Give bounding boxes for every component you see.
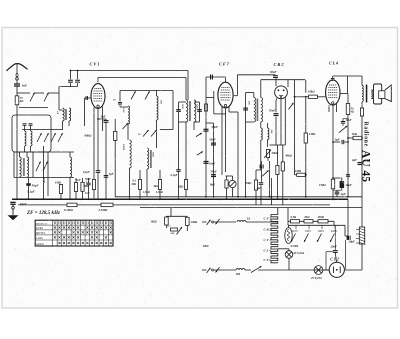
svg-text:4Ω: 4Ω: [350, 111, 354, 114]
svg-text:50nF: 50nF: [346, 119, 352, 122]
svg-text:10μF: 10μF: [20, 202, 28, 206]
svg-text:1MΩ: 1MΩ: [178, 186, 184, 189]
svg-text:1MΩ: 1MΩ: [295, 169, 302, 173]
svg-text:LANG: LANG: [36, 237, 43, 240]
svg-text:200: 200: [270, 129, 273, 134]
svg-text:1,5kΩ: 1,5kΩ: [156, 191, 163, 194]
svg-text:BEREICH: BEREICH: [36, 222, 47, 225]
svg-text:C Y 1: C Y 1: [264, 258, 272, 262]
svg-text:MITTEL: MITTEL: [36, 232, 46, 235]
svg-text:160V: 160V: [318, 229, 325, 233]
svg-text:1A: 1A: [247, 216, 251, 220]
svg-text:300: 300: [160, 99, 163, 104]
svg-text:0.1μF: 0.1μF: [28, 190, 35, 194]
svg-text:6V 0,23A: 6V 0,23A: [294, 251, 305, 255]
svg-text:2μF: 2μF: [351, 158, 357, 162]
svg-text:5000: 5000: [152, 152, 155, 158]
svg-text:5μF: 5μF: [109, 173, 114, 176]
svg-text:150Ω: 150Ω: [318, 215, 325, 219]
svg-text:C Y 2: C Y 2: [330, 257, 339, 261]
svg-text:1000: 1000: [195, 104, 198, 110]
svg-text:4V 0,25A: 4V 0,25A: [310, 276, 322, 280]
svg-text:130V: 130V: [305, 229, 312, 233]
svg-text:60W: 60W: [203, 244, 209, 248]
svg-text:1,5kΩ: 1,5kΩ: [143, 191, 150, 194]
svg-text:MΩ: MΩ: [131, 183, 136, 186]
svg-text:600: 600: [236, 273, 241, 276]
svg-text:50μF: 50μF: [32, 184, 39, 188]
svg-text:AU 45: AU 45: [360, 150, 372, 182]
svg-text:S/1000: S/1000: [291, 245, 299, 248]
svg-text:0.1MΩ: 0.1MΩ: [64, 208, 74, 212]
svg-text:C L 4: C L 4: [329, 60, 338, 65]
svg-text:0,1μF: 0,1μF: [171, 173, 178, 177]
svg-text:1MΩ: 1MΩ: [55, 181, 62, 185]
svg-text:20μF: 20μF: [348, 239, 356, 243]
svg-text:50nF: 50nF: [212, 125, 219, 129]
svg-text:4μF: 4μF: [340, 192, 346, 196]
svg-text:Radione: Radione: [363, 122, 369, 148]
svg-text:80kΩ: 80kΩ: [85, 133, 93, 137]
svg-text:220V: 220V: [331, 229, 338, 233]
svg-text:KURZ: KURZ: [36, 227, 43, 230]
svg-text:40μF: 40μF: [344, 183, 352, 187]
svg-text:MΩ: MΩ: [83, 185, 88, 188]
svg-text:53nF: 53nF: [209, 138, 216, 142]
svg-text:10000: 10000: [122, 144, 125, 151]
svg-text:55nF: 55nF: [210, 169, 217, 173]
svg-text:20kΩ: 20kΩ: [190, 220, 198, 224]
svg-text:10nF: 10nF: [209, 161, 216, 165]
svg-text:C F 7: C F 7: [219, 62, 230, 67]
svg-text:20nF: 20nF: [330, 245, 338, 249]
svg-text:C L 4: C L 4: [264, 249, 272, 253]
svg-text:110V: 110V: [292, 229, 299, 233]
svg-text:ZF = 128,5 kHz: ZF = 128,5 kHz: [26, 210, 60, 216]
svg-text:1kΩ: 1kΩ: [210, 183, 216, 187]
svg-text:0,5Ω: 0,5Ω: [291, 215, 298, 219]
svg-text:1nF: 1nF: [85, 192, 90, 195]
svg-text:40kΩ: 40kΩ: [284, 154, 292, 158]
svg-text:150Ω: 150Ω: [319, 183, 326, 187]
svg-text:0,10: 0,10: [122, 108, 125, 113]
svg-text:2.5MΩ: 2.5MΩ: [98, 208, 109, 212]
svg-text:3nF: 3nF: [100, 114, 106, 118]
svg-text:50nF: 50nF: [269, 108, 275, 112]
svg-text:0,1μF: 0,1μF: [83, 171, 90, 174]
svg-text:1MΩ: 1MΩ: [309, 132, 316, 136]
svg-text:C V 1: C V 1: [90, 62, 100, 67]
svg-text:1000: 1000: [181, 104, 184, 110]
svg-text:50nF: 50nF: [85, 178, 91, 181]
svg-text:50nF: 50nF: [270, 70, 277, 74]
svg-text:1μF: 1μF: [335, 137, 340, 141]
svg-text:C F 7: C F 7: [264, 217, 272, 221]
